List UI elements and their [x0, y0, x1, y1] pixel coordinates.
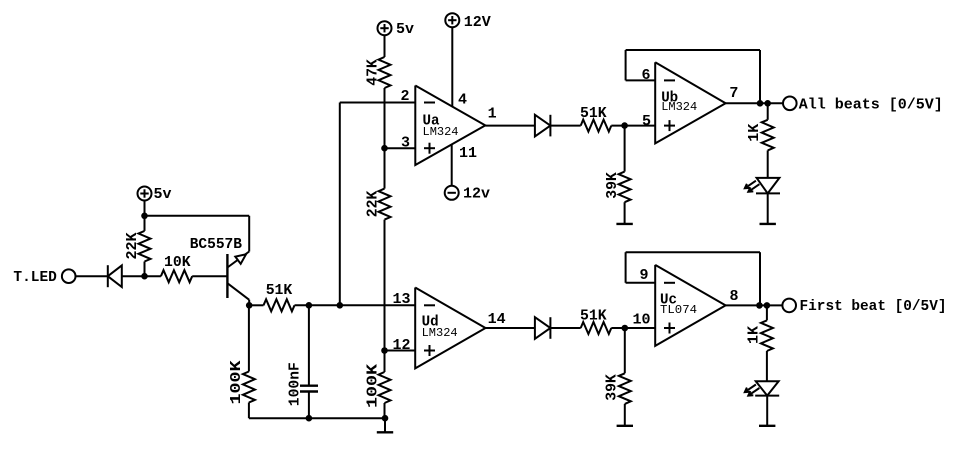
svg-text:100K: 100K	[228, 361, 245, 405]
svg-text:1: 1	[488, 105, 497, 122]
svg-text:4: 4	[458, 92, 467, 109]
svg-text:39K: 39K	[604, 374, 621, 401]
svg-text:12: 12	[392, 337, 410, 354]
svg-text:T.LED: T.LED	[13, 269, 57, 286]
svg-text:All beats [0/5V]: All beats [0/5V]	[799, 96, 943, 113]
svg-text:1K: 1K	[746, 124, 763, 142]
svg-text:39K: 39K	[604, 172, 621, 199]
svg-text:47K: 47K	[364, 59, 381, 86]
svg-text:LM324: LM324	[423, 125, 459, 139]
svg-text:22K: 22K	[124, 233, 141, 260]
svg-text:51K: 51K	[580, 307, 607, 324]
svg-text:12V: 12V	[464, 14, 491, 31]
svg-text:9: 9	[639, 267, 648, 284]
svg-text:LM324: LM324	[422, 326, 458, 340]
svg-text:3: 3	[401, 135, 410, 152]
svg-text:7: 7	[729, 85, 738, 102]
svg-text:11: 11	[459, 145, 477, 162]
svg-text:5: 5	[642, 113, 651, 130]
svg-text:2: 2	[400, 88, 409, 105]
svg-text:22K: 22K	[364, 191, 381, 218]
svg-text:1K: 1K	[745, 326, 762, 344]
svg-text:10: 10	[632, 311, 650, 328]
svg-text:14: 14	[488, 311, 506, 328]
svg-text:6: 6	[641, 67, 650, 84]
svg-text:5v: 5v	[396, 21, 414, 38]
svg-text:100K: 100K	[364, 364, 381, 408]
svg-text:12v: 12v	[463, 186, 490, 203]
svg-text:8: 8	[730, 288, 739, 305]
svg-text:10K: 10K	[164, 254, 191, 271]
svg-text:51K: 51K	[580, 105, 607, 122]
svg-text:TL074: TL074	[660, 303, 697, 317]
svg-text:51K: 51K	[266, 282, 293, 299]
svg-text:LM324: LM324	[661, 100, 697, 114]
svg-text:First beat [0/5V]: First beat [0/5V]	[800, 298, 947, 315]
svg-text:BC557B: BC557B	[190, 236, 242, 253]
svg-text:100nF: 100nF	[287, 362, 304, 406]
svg-text:13: 13	[392, 291, 410, 308]
svg-text:5v: 5v	[154, 186, 172, 203]
